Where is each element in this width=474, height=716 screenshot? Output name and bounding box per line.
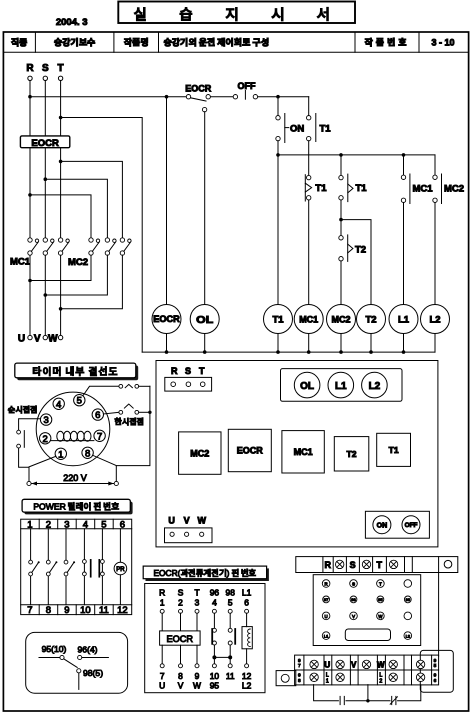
EOCR pin L coil bbox=[242, 613, 252, 664]
svg-text:U: U bbox=[18, 334, 25, 345]
panel label R S T bbox=[171, 366, 205, 376]
svg-text:V: V bbox=[184, 515, 190, 525]
svg-text:96: 96 bbox=[406, 597, 411, 602]
svg-text:L1: L1 bbox=[324, 634, 329, 639]
panel lamp L2 bbox=[362, 372, 388, 398]
svg-text:6: 6 bbox=[95, 410, 100, 421]
svg-text:T: T bbox=[194, 588, 199, 598]
svg-text:MC1: MC1 bbox=[294, 447, 313, 457]
EOCR face 97 bbox=[323, 596, 330, 603]
svg-text:4: 4 bbox=[83, 519, 88, 530]
svg-text:2004. 3: 2004. 3 bbox=[56, 17, 88, 28]
svg-text:L1: L1 bbox=[398, 315, 410, 326]
svg-text:2: 2 bbox=[178, 597, 183, 607]
svg-text:승강기보수: 승강기보수 bbox=[54, 36, 96, 49]
wire control bus bbox=[278, 154, 435, 156]
svg-text:9: 9 bbox=[298, 673, 301, 679]
strip labels row2 bbox=[326, 672, 383, 684]
strip screw S bbox=[362, 560, 370, 568]
svg-text:순시접점: 순시접점 bbox=[8, 405, 38, 416]
pushbutton ON bbox=[276, 97, 289, 155]
EOCR face S bbox=[350, 580, 358, 588]
wire MC2 T merge bbox=[61, 255, 123, 309]
EOCR pin outer box bbox=[145, 584, 265, 693]
svg-text:EOCR: EOCR bbox=[153, 314, 180, 324]
panel button ON bbox=[373, 516, 391, 534]
EOCR face W bbox=[377, 612, 385, 620]
node bus2 MC2 bbox=[339, 350, 343, 354]
svg-text:T: T bbox=[199, 366, 205, 376]
svg-text:9: 9 bbox=[195, 671, 200, 681]
terminal R bbox=[28, 76, 32, 80]
svg-text:작품번호: 작품번호 bbox=[364, 36, 409, 49]
EOCR pin 96 contact bbox=[212, 613, 216, 664]
terminal T bbox=[58, 76, 62, 80]
relay pin numbers top bbox=[27, 519, 125, 530]
svg-text:12: 12 bbox=[242, 671, 252, 681]
svg-text:EOCR: EOCR bbox=[185, 84, 212, 94]
node S branch MC2 bbox=[44, 177, 48, 181]
svg-text:T2: T2 bbox=[365, 315, 376, 326]
timer pin 4 bbox=[53, 398, 64, 410]
contact delayed NC top bbox=[83, 384, 150, 395]
node T2 tap bbox=[339, 218, 343, 222]
svg-text:1: 1 bbox=[160, 597, 165, 607]
strip label R bbox=[325, 560, 332, 570]
EOCR face 95 bbox=[377, 596, 384, 603]
svg-text:3: 3 bbox=[64, 519, 69, 530]
node bus2 L1 bbox=[402, 350, 406, 354]
svg-text:95(10): 95(10) bbox=[42, 644, 67, 654]
svg-text:11: 11 bbox=[99, 605, 109, 616]
svg-text:8: 8 bbox=[46, 605, 51, 616]
svg-text:W: W bbox=[48, 334, 58, 345]
EOCR pin bottom terminals bbox=[160, 664, 248, 668]
coil T2 bbox=[357, 305, 386, 353]
svg-text:OFF: OFF bbox=[405, 522, 418, 529]
relay coil pin 4-10 bbox=[83, 529, 87, 605]
timer socket circle bbox=[36, 392, 110, 466]
coil T1 bbox=[264, 305, 293, 353]
pushbutton OFF bbox=[233, 91, 257, 100]
svg-text:5: 5 bbox=[77, 396, 82, 407]
svg-text:T: T bbox=[58, 63, 64, 74]
svg-text:V: V bbox=[351, 661, 357, 670]
svg-text:R: R bbox=[26, 63, 34, 74]
svg-text:L1: L1 bbox=[242, 588, 252, 598]
label W bbox=[48, 334, 58, 345]
wire return bus bbox=[142, 351, 435, 353]
panel lamp box bbox=[281, 369, 403, 402]
contact T1 parallel bbox=[307, 97, 316, 176]
strip label S bbox=[350, 560, 356, 570]
link wire strip to lower box bbox=[438, 573, 440, 657]
svg-text:7: 7 bbox=[298, 663, 301, 669]
svg-text:L1: L1 bbox=[335, 381, 347, 392]
wire T return to bus riser bbox=[61, 118, 143, 353]
phase label S bbox=[42, 63, 49, 74]
header cell 승강기보수 bbox=[54, 36, 96, 49]
EOCR face box bbox=[313, 575, 421, 646]
svg-text:1: 1 bbox=[27, 519, 32, 530]
panel box T2 bbox=[334, 437, 369, 471]
label 96(4) bbox=[77, 644, 97, 654]
svg-text:R: R bbox=[325, 560, 332, 570]
EOCR pin numbers bottom bbox=[160, 671, 252, 681]
strip end circle bbox=[444, 560, 452, 568]
wire R to MC2 branch bbox=[30, 195, 91, 238]
svg-text:11: 11 bbox=[226, 671, 235, 681]
timer coil between pins 2 and 7 bbox=[51, 431, 94, 441]
svg-text:OL: OL bbox=[300, 381, 314, 392]
svg-text:L2: L2 bbox=[429, 315, 440, 326]
node bus2 T1 bbox=[276, 350, 280, 354]
wire T to MC2 branch bbox=[61, 161, 123, 237]
label T1 delay a bbox=[315, 183, 327, 194]
panel label U V W bbox=[168, 515, 206, 525]
svg-text:L2: L2 bbox=[242, 681, 252, 691]
svg-text:9: 9 bbox=[64, 605, 69, 616]
wire MC2 branch drop bbox=[340, 155, 342, 176]
svg-text:4: 4 bbox=[212, 597, 217, 607]
coil EOCR bbox=[152, 305, 181, 353]
wire T2 coil feed bbox=[341, 220, 371, 305]
contact MC1 pole T bbox=[58, 238, 69, 255]
dimension 220V bbox=[32, 473, 114, 486]
strip labels U V W row1 bbox=[324, 661, 385, 670]
contact MC1 pole S bbox=[43, 238, 54, 255]
svg-text:R: R bbox=[159, 588, 165, 598]
lamp L1 bbox=[389, 305, 418, 353]
contact MC2 pole S bbox=[105, 238, 116, 255]
svg-text:MC2: MC2 bbox=[444, 184, 464, 195]
relay pin numbers bottom bbox=[27, 605, 127, 616]
panel UVW terminal block bbox=[165, 528, 213, 543]
svg-text:POWER 릴레이 핀 번호: POWER 릴레이 핀 번호 bbox=[33, 500, 119, 512]
EOCR pin tie 10-11 bbox=[212, 655, 232, 659]
node T return tap bbox=[59, 116, 63, 120]
svg-text:3: 3 bbox=[43, 415, 48, 426]
svg-text:5: 5 bbox=[228, 597, 233, 607]
svg-text:R: R bbox=[171, 366, 178, 376]
panel ON OFF box bbox=[365, 511, 429, 538]
svg-text:R: R bbox=[325, 581, 328, 586]
EOCR pin numbers top bbox=[160, 597, 249, 607]
coil MC1 bbox=[294, 305, 323, 353]
strip screw T bbox=[389, 560, 397, 568]
panel lamp L1 bbox=[328, 372, 354, 398]
svg-text:8: 8 bbox=[85, 448, 90, 459]
relay contact 3-9 bbox=[64, 529, 75, 605]
terminal V bbox=[43, 335, 47, 339]
relay pin header dividers bbox=[39, 519, 113, 614]
svg-text:S: S bbox=[350, 560, 356, 570]
label MC2 power bbox=[68, 257, 88, 268]
svg-text:EOCR: EOCR bbox=[167, 634, 194, 644]
node bus MC2 branch bbox=[339, 153, 343, 157]
EOCR face R bbox=[322, 580, 330, 588]
timer pin 5 bbox=[74, 395, 85, 407]
svg-text:ON: ON bbox=[290, 124, 304, 135]
label V bbox=[34, 334, 41, 345]
svg-text:5: 5 bbox=[434, 663, 437, 669]
svg-text:T1: T1 bbox=[272, 315, 284, 326]
coil OL bbox=[190, 305, 219, 353]
POWER relay title box bbox=[22, 499, 132, 514]
panel RST terminal block bbox=[165, 377, 212, 391]
label MC1 power bbox=[10, 257, 31, 268]
aux small box 97 bbox=[276, 671, 296, 686]
EOCR face V bbox=[350, 612, 358, 620]
svg-text:S: S bbox=[352, 581, 355, 586]
relay contact 2-8 bbox=[46, 529, 57, 605]
POWER relay outer box bbox=[21, 519, 132, 614]
label MC1 aux bbox=[413, 184, 434, 195]
EOCR pin title box bbox=[143, 566, 269, 581]
timer pin 8 bbox=[82, 447, 93, 459]
EOCR pin bottom labels bbox=[159, 681, 251, 691]
node R branch MC2 bbox=[28, 193, 32, 197]
contact MC2 pole R bbox=[89, 238, 100, 255]
svg-text:96(4): 96(4) bbox=[77, 644, 97, 654]
node merge R bbox=[28, 279, 32, 283]
node R control tap bbox=[28, 95, 32, 99]
svg-text:T2: T2 bbox=[355, 244, 366, 255]
svg-text:W: W bbox=[377, 661, 385, 670]
node ON tap bbox=[276, 95, 280, 99]
timer pin 2 bbox=[40, 433, 51, 445]
wire phase S vertical bbox=[44, 81, 46, 336]
svg-text:MC2: MC2 bbox=[331, 315, 350, 325]
wire OL drop bbox=[204, 112, 206, 305]
svg-text:10: 10 bbox=[80, 605, 91, 616]
svg-text:MC2: MC2 bbox=[68, 257, 88, 268]
title box 실습지시서 bbox=[118, 2, 362, 25]
terminal W bbox=[58, 335, 62, 339]
EOCR pin RST wires top bbox=[162, 613, 197, 631]
wire control line bbox=[30, 96, 309, 98]
node bus2 EOCR bbox=[165, 350, 169, 354]
relay contact 1-7 bbox=[29, 529, 40, 605]
svg-text:98(5): 98(5) bbox=[83, 668, 103, 678]
terminal strip bottom bbox=[295, 655, 439, 685]
contact T2 delay bbox=[339, 235, 353, 305]
contact T1 delay b bbox=[339, 174, 353, 236]
EOCR face 96 bbox=[404, 596, 411, 603]
strip left pin labels 97 98 bbox=[298, 658, 301, 684]
svg-text:L2: L2 bbox=[369, 381, 381, 392]
svg-text:T1: T1 bbox=[356, 183, 368, 194]
contact MC1 pole R bbox=[28, 238, 39, 255]
svg-text:T1: T1 bbox=[389, 445, 399, 455]
svg-text:V: V bbox=[352, 614, 355, 619]
strip right pin labels 95 96 bbox=[434, 658, 437, 684]
timer title box 타이머 내부 결선도 bbox=[15, 363, 138, 380]
node T branch MC2 bbox=[59, 160, 63, 164]
timer pin 3 bbox=[40, 414, 51, 426]
node bus2 MC1 bbox=[307, 350, 311, 354]
svg-text:MC1: MC1 bbox=[413, 184, 434, 195]
wire phase R vertical bbox=[29, 81, 31, 336]
date 2004. 3 bbox=[56, 17, 88, 28]
panel box T1 bbox=[377, 433, 411, 466]
EOCR face T bbox=[377, 580, 385, 588]
svg-text:3: 3 bbox=[195, 597, 200, 607]
panel box EOCR bbox=[228, 429, 271, 471]
contact T1 delay a bbox=[305, 175, 311, 305]
contact delayed NO 한시접점 bbox=[104, 404, 150, 414]
svg-text:S: S bbox=[178, 588, 184, 598]
svg-text:12: 12 bbox=[117, 605, 128, 616]
terminal U bbox=[28, 335, 32, 339]
terminal 220V right bbox=[114, 481, 118, 485]
EOCR face L2 bbox=[404, 632, 412, 640]
svg-text:U: U bbox=[324, 661, 330, 670]
svg-text:작품명: 작품명 bbox=[124, 36, 149, 49]
contact EOCR trip bbox=[186, 95, 210, 112]
EOCR face blank1 bbox=[404, 580, 412, 588]
timer pin 6 bbox=[92, 409, 103, 421]
timer pin 7 bbox=[94, 430, 105, 442]
contact MC2 aux bbox=[433, 155, 442, 305]
svg-text:3 - 10: 3 - 10 bbox=[431, 38, 454, 48]
svg-text:S: S bbox=[185, 366, 191, 376]
relay lamp PR pin 6-12 bbox=[114, 529, 127, 605]
label T1 parallel bbox=[320, 124, 332, 135]
EOCR face U bbox=[322, 612, 330, 620]
label U bbox=[18, 334, 25, 345]
strip screw R bbox=[336, 560, 344, 568]
terminal S bbox=[43, 76, 47, 80]
svg-text:W: W bbox=[197, 515, 206, 525]
coil MC2 bbox=[327, 305, 356, 353]
strip label T bbox=[377, 560, 383, 570]
svg-text:1: 1 bbox=[58, 449, 63, 460]
svg-text:2: 2 bbox=[379, 678, 382, 684]
strip screws row2 bbox=[310, 673, 425, 681]
EOCR pin top terminals bbox=[160, 609, 248, 613]
svg-text:한시접점: 한시접점 bbox=[114, 416, 144, 427]
wire phase T vertical bbox=[60, 81, 62, 336]
svg-text:승강기의 운전 제어회로 구성: 승강기의 운전 제어회로 구성 bbox=[164, 36, 270, 49]
node merge T bbox=[59, 307, 63, 311]
wire MC2 R merge bbox=[30, 255, 91, 280]
node bus L1 branch bbox=[402, 153, 406, 157]
svg-text:S: S bbox=[42, 63, 49, 74]
svg-text:95: 95 bbox=[210, 681, 220, 691]
svg-text:EOCR(과전류계전기) 핀 번호: EOCR(과전류계전기) 핀 번호 bbox=[153, 567, 256, 579]
svg-text:타이머 내부 결선도: 타이머 내부 결선도 bbox=[32, 363, 118, 378]
wire EOCR coil drop bbox=[165, 95, 169, 305]
node merge S bbox=[44, 293, 48, 297]
panel lamp OL bbox=[294, 372, 320, 398]
contact MC2 pole T bbox=[120, 238, 131, 255]
wire pin8 to right terminal bbox=[93, 455, 117, 481]
EOCR pin header labels bbox=[159, 588, 251, 598]
svg-text:T: T bbox=[379, 581, 382, 586]
phase label T bbox=[58, 63, 64, 74]
wire delayed contacts return bbox=[116, 386, 150, 465]
svg-text:OL: OL bbox=[196, 314, 214, 326]
svg-text:MC1: MC1 bbox=[299, 315, 318, 325]
svg-text:7: 7 bbox=[160, 671, 165, 681]
wire S to MC2 branch bbox=[45, 179, 107, 238]
svg-text:직종: 직종 bbox=[11, 36, 28, 49]
phase label R bbox=[26, 63, 34, 74]
svg-text:U: U bbox=[325, 614, 328, 619]
EOCR box bbox=[20, 136, 69, 149]
svg-text:EOCR: EOCR bbox=[31, 138, 59, 149]
contact 95-96 bbox=[39, 655, 108, 667]
svg-text:W: W bbox=[193, 681, 201, 691]
label 95(10) bbox=[42, 644, 67, 654]
svg-text:220 V: 220 V bbox=[63, 473, 87, 483]
svg-text:MC1: MC1 bbox=[10, 257, 31, 268]
label 순시접점 bbox=[8, 405, 38, 416]
EOCR face display bbox=[345, 629, 390, 641]
svg-text:10: 10 bbox=[210, 671, 220, 681]
svg-text:T: T bbox=[377, 560, 383, 570]
node bus2 T2 bbox=[369, 350, 373, 354]
svg-text:T1: T1 bbox=[320, 124, 332, 135]
svg-text:8: 8 bbox=[298, 678, 301, 684]
svg-text:2: 2 bbox=[43, 434, 48, 445]
EOCR face L1 bbox=[322, 632, 330, 640]
svg-text:V: V bbox=[34, 334, 41, 345]
EOCR face blank2 bbox=[404, 612, 412, 620]
svg-text:T1: T1 bbox=[315, 183, 327, 194]
jumper wire with lugs bbox=[314, 685, 421, 705]
svg-text:4: 4 bbox=[56, 399, 61, 410]
panel outline bbox=[156, 361, 438, 547]
EOCR pin RST wires bottom bbox=[162, 645, 197, 664]
svg-text:9: 9 bbox=[434, 658, 437, 664]
svg-text:ON: ON bbox=[377, 522, 388, 529]
svg-text:U: U bbox=[168, 515, 175, 525]
node delayed contacts join bbox=[148, 411, 151, 414]
svg-text:7: 7 bbox=[27, 605, 32, 616]
svg-text:V: V bbox=[178, 681, 184, 691]
label 한시접점 bbox=[114, 416, 144, 427]
svg-text:95: 95 bbox=[378, 597, 383, 602]
label T1 delay b bbox=[356, 183, 368, 194]
panel box MC2 bbox=[179, 432, 221, 474]
timer pin 1 bbox=[55, 448, 66, 460]
svg-text:PR: PR bbox=[116, 567, 125, 573]
svg-text:7: 7 bbox=[97, 431, 102, 442]
svg-text:97: 97 bbox=[324, 597, 329, 602]
contact instantaneous bbox=[17, 419, 41, 468]
node bus T1 bbox=[276, 153, 280, 157]
svg-text:실습지시서: 실습지시서 bbox=[134, 3, 363, 24]
wire pin1 to left terminal bbox=[29, 456, 56, 481]
EOCR aux contact box bbox=[26, 632, 128, 693]
svg-text:1: 1 bbox=[326, 678, 329, 684]
svg-text:OFF: OFF bbox=[238, 81, 256, 91]
EOCR pin 98 contact bbox=[228, 613, 235, 664]
label ON bbox=[290, 124, 304, 135]
label 98(5) bbox=[83, 668, 103, 678]
svg-text:96: 96 bbox=[210, 588, 220, 598]
contact MC1 aux bbox=[401, 155, 410, 305]
header table row bbox=[3, 32, 468, 52]
svg-text:L2: L2 bbox=[406, 634, 411, 639]
contact 98 bbox=[77, 669, 81, 690]
strip screws row1 bbox=[310, 660, 425, 668]
terminal strip RST top bbox=[296, 557, 458, 573]
svg-text:98: 98 bbox=[226, 588, 236, 598]
relay coil pin 5-11 bbox=[101, 529, 105, 605]
